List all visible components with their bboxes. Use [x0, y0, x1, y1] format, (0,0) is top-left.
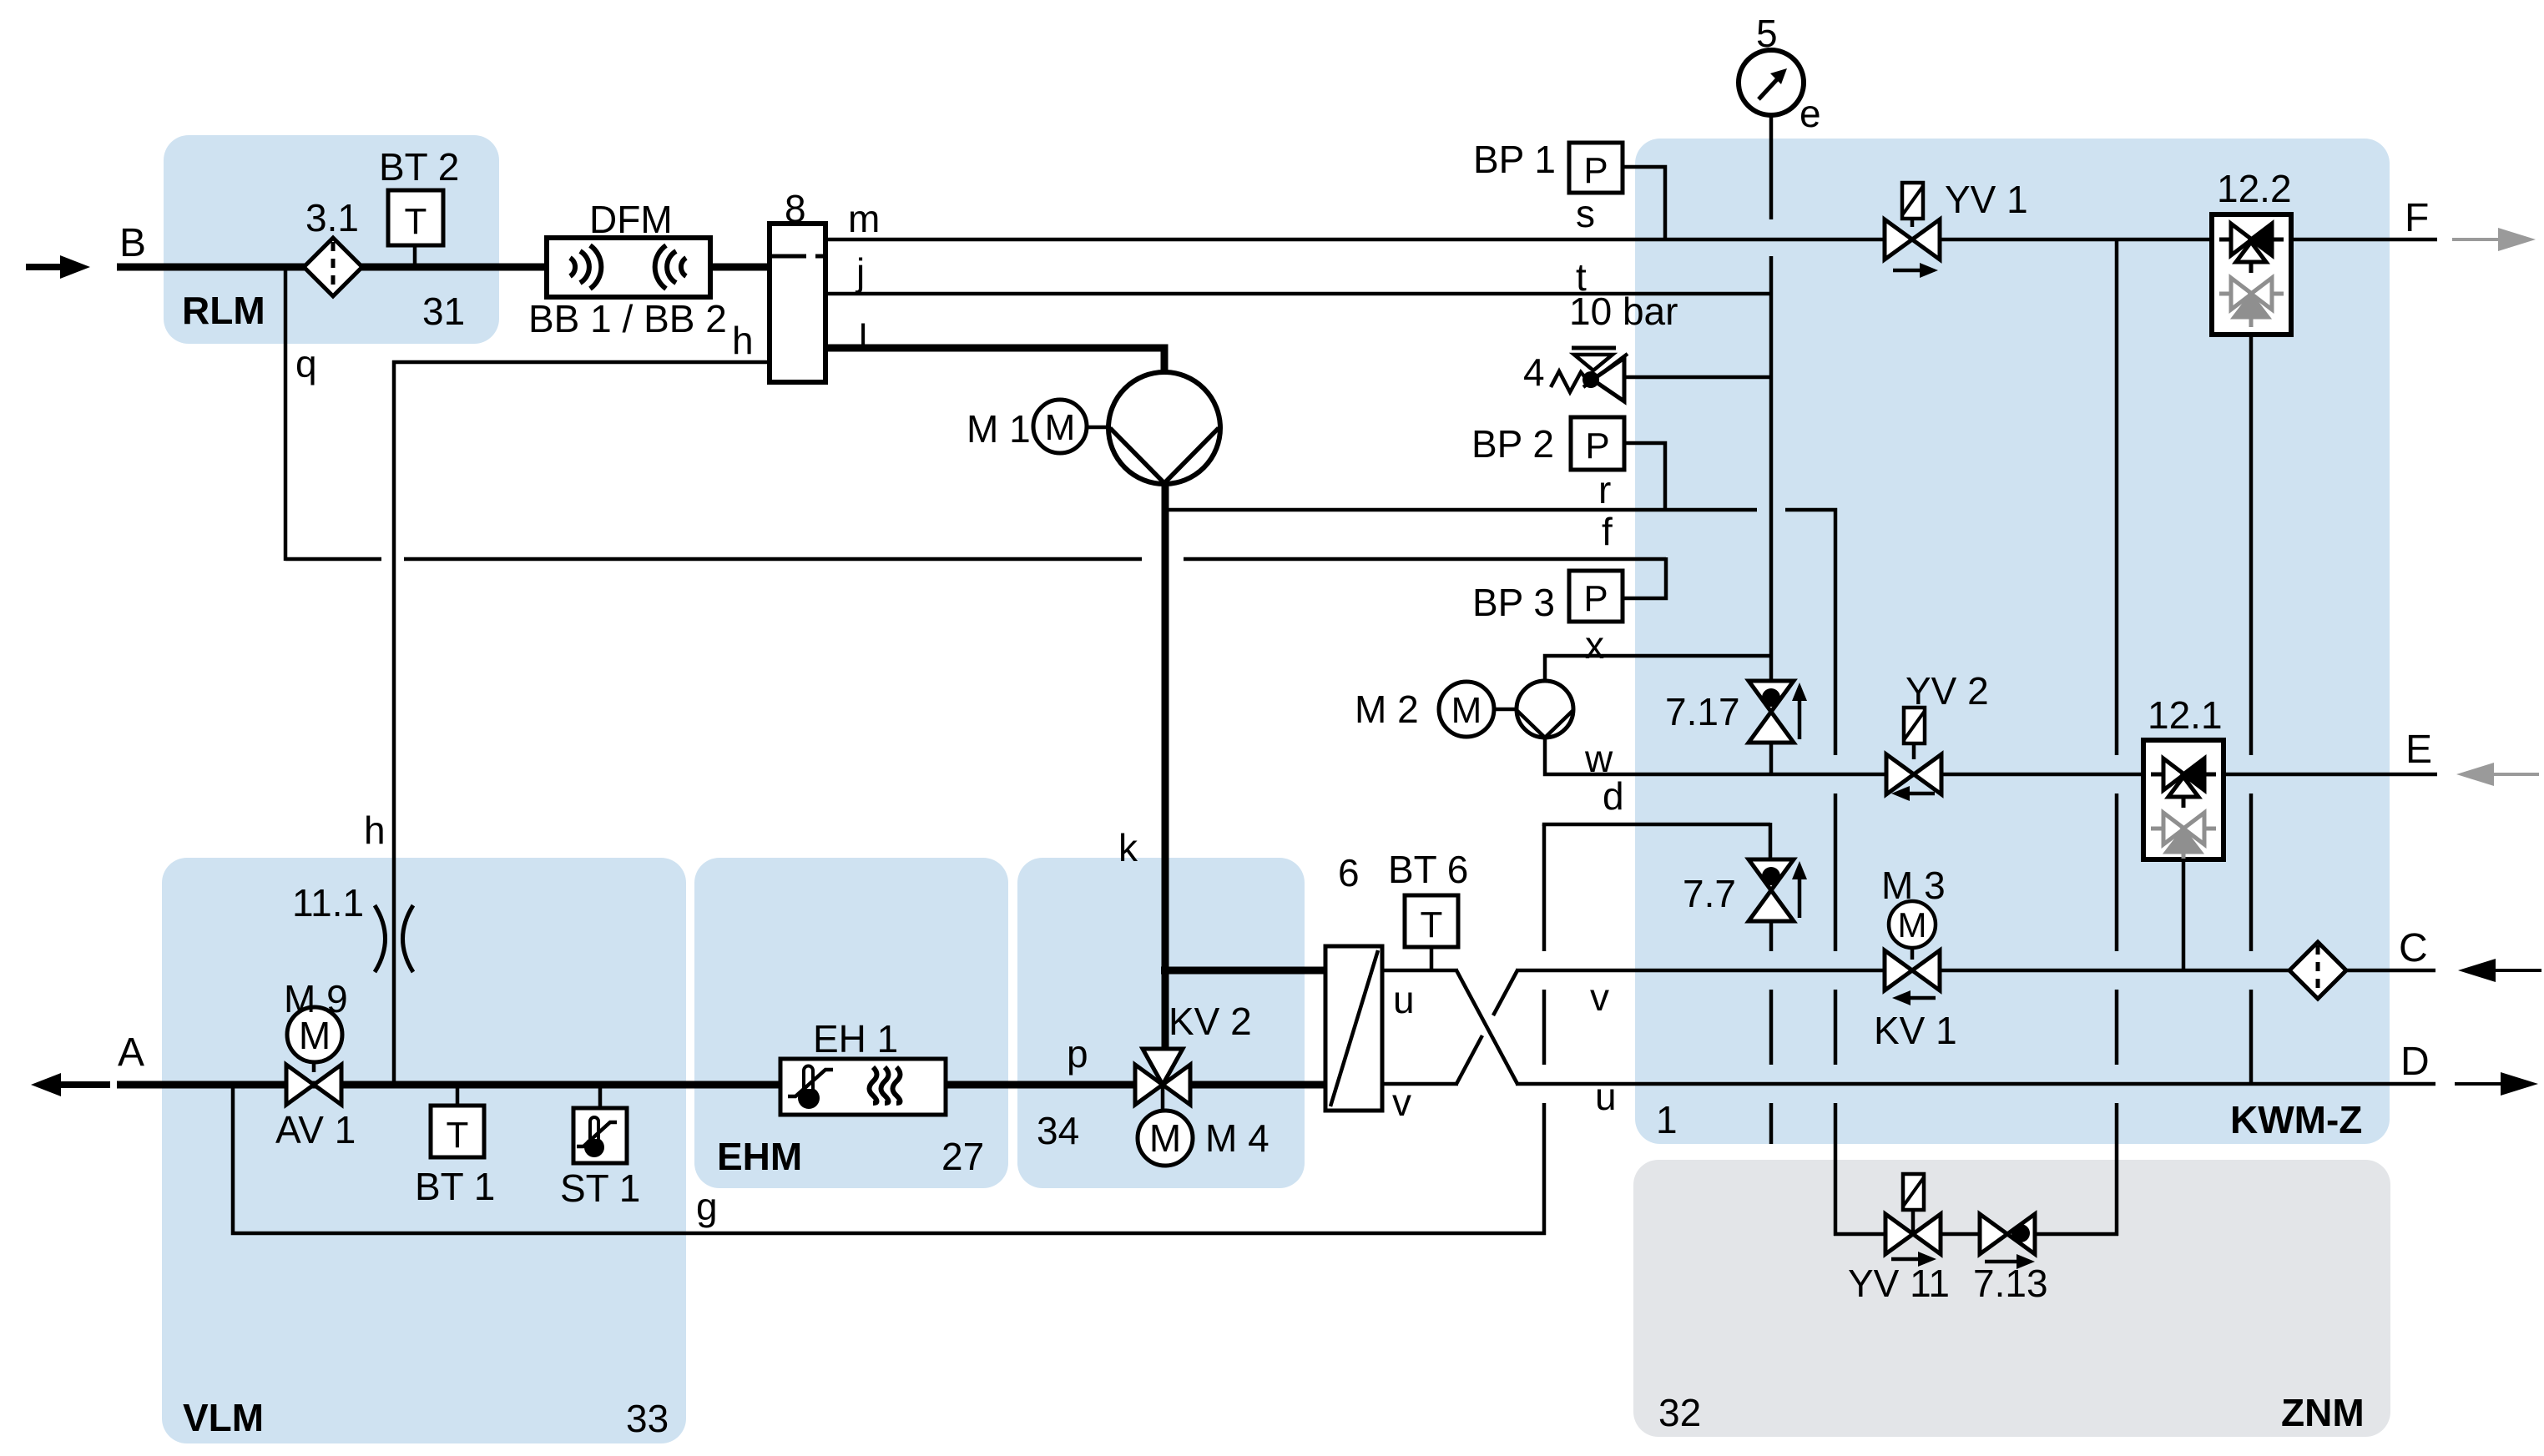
svg-text:VLM: VLM [183, 1396, 264, 1439]
manifold block 8 [770, 224, 825, 382]
svg-text:M: M [1451, 690, 1482, 731]
svg-text:h: h [732, 319, 754, 362]
svg-text:31: 31 [422, 290, 465, 333]
wire: x line from pump M2 to gauge riser [1545, 656, 1771, 683]
heat exchanger 6 [1325, 946, 1382, 1111]
module panel 34 background [1017, 858, 1305, 1188]
svg-text:u: u [1595, 1075, 1617, 1118]
svg-text:M 3: M 3 [1881, 864, 1946, 907]
overflow valve 7.17 [1749, 681, 1807, 743]
svg-text:M 4: M 4 [1205, 1116, 1269, 1160]
svg-text:EHM: EHM [717, 1135, 802, 1178]
backflow preventer 12.1 [2143, 740, 2223, 859]
svg-text:8: 8 [785, 187, 806, 230]
svg-text:ST 1: ST 1 [560, 1166, 640, 1210]
svg-text:C: C [2399, 926, 2428, 970]
svg-text:P: P [1585, 426, 1609, 466]
wire: V2 riser segments down into ZNM [1834, 793, 1838, 951]
three-way valve KV 2 with motor M 4 [1135, 1049, 1193, 1166]
wire: q vertical from pipe B down [284, 267, 288, 561]
svg-text:12.1: 12.1 [2148, 693, 2223, 737]
svg-text:M: M [1045, 407, 1076, 448]
port arrow D (outlet, black right) [2455, 1072, 2538, 1096]
temperature sensor BT 6 [1405, 895, 1458, 947]
wire: d riser segments down to g corner [1542, 824, 1547, 951]
svg-text:7.13: 7.13 [1973, 1262, 2048, 1305]
svg-text:BP 1: BP 1 [1473, 138, 1556, 181]
wire: crossover diagonal u up to v (with gap) [1456, 1035, 1482, 1084]
motor valve KV 1 with motor M 3 [1885, 901, 1940, 1005]
wire: k line (thick) pump M1 down to valve KV 2 [1162, 483, 1169, 1085]
overflow valve 7.7 [1749, 859, 1807, 921]
module panel VLM background [162, 858, 686, 1443]
svg-text:T: T [447, 1115, 469, 1156]
wire: gauge riser e / V1 from gauge to w line (gap at s) [1769, 113, 1774, 219]
svg-text:F: F [2405, 196, 2429, 240]
module panel EHM background [694, 858, 1008, 1188]
svg-text:KV 2: KV 2 [1169, 1000, 1252, 1043]
wire: u/D line to port D [1516, 1082, 2435, 1086]
pressure sensor BP 3 [1569, 571, 1623, 622]
module panel KWM-Z background [1635, 139, 2390, 1144]
svg-text:v: v [1392, 1081, 1411, 1124]
svg-text:j: j [855, 250, 865, 294]
pressure sensor BP 2 [1571, 417, 1624, 470]
port arrow C (inlet, black left) [2458, 959, 2541, 982]
svg-text:q: q [295, 342, 317, 385]
svg-text:7.7: 7.7 [1683, 872, 1736, 915]
wire: w/E line from pump M2 to port E [1545, 736, 2437, 774]
temperature sensor BT 2 [388, 190, 443, 245]
svg-text:KV 1: KV 1 [1874, 1009, 1957, 1052]
svg-text:34: 34 [1037, 1109, 1079, 1152]
svg-text:x: x [1585, 623, 1604, 667]
wire: pipe A (thick) from arrow through EH1 and KV2 to exchanger [117, 1081, 1325, 1089]
svg-text:32: 32 [1658, 1391, 1701, 1434]
pump M2 (circle with impeller) [1517, 681, 1573, 738]
filter 3 (diamond with dashed vertical) [2289, 942, 2346, 999]
svg-text:7.17: 7.17 [1665, 690, 1740, 733]
svg-text:KWM-Z: KWM-Z [2230, 1098, 2362, 1141]
svg-text:5: 5 [1756, 12, 1778, 55]
wire: pipe B (thick) from arrow to manifold 8 [117, 264, 770, 271]
svg-text:BP 3: BP 3 [1472, 581, 1555, 624]
solenoid valve YV 2 [1886, 708, 1941, 801]
wire: f line from q corner to BP3 elbow (gaps at h and k crossings) [285, 557, 381, 562]
svg-text:M: M [1898, 905, 1927, 945]
svg-text:M 1: M 1 [967, 407, 1031, 451]
wire: f elbow down to BP3 stub [1622, 557, 1666, 598]
port arrow F (outlet, gray right) [2452, 228, 2536, 251]
module panel RLM background [164, 135, 499, 344]
svg-text:27: 27 [941, 1135, 984, 1178]
compensator 11.1 [375, 905, 413, 972]
wire: BT2 stem [413, 244, 417, 267]
svg-text:BP 2: BP 2 [1471, 422, 1554, 466]
wire: h horizontal from corner to manifold 8 [392, 360, 771, 365]
electric heater EH 1 [780, 1059, 946, 1115]
svg-text:1: 1 [1656, 1098, 1678, 1141]
motor M of pump M1 [1033, 400, 1109, 453]
svg-text:v: v [1590, 975, 1609, 1019]
wire: r line from k line to V2 corner (gap at gauge riser) [1166, 508, 1757, 512]
wire: BP1 stub and elbow down to s line [1622, 167, 1665, 239]
svg-text:BB 1 / BB 2: BB 1 / BB 2 [528, 297, 727, 340]
svg-text:D: D [2400, 1040, 2430, 1084]
svg-text:BT 2: BT 2 [379, 145, 459, 189]
backflow preventer 12.2 [2212, 214, 2291, 335]
temperature sensor BT 1 [431, 1106, 484, 1157]
svg-text:11.1: 11.1 [292, 881, 364, 924]
wire: ST1 stem [598, 1085, 603, 1108]
svg-text:e: e [1799, 92, 1821, 135]
check valve 7.13 [1980, 1214, 2035, 1269]
wire: 12.1 stem down to C line [2182, 858, 2186, 970]
wire: j/t line from manifold 8 to gauge riser [825, 292, 1771, 296]
svg-text:EH 1: EH 1 [813, 1017, 898, 1061]
svg-text:RLM: RLM [182, 289, 265, 332]
wire: d line from drop riser to 7.7 valve corner [1544, 824, 1770, 826]
svg-text:M 2: M 2 [1355, 688, 1419, 731]
wire: BT6 stem [1430, 946, 1434, 970]
svg-text:m: m [848, 197, 880, 240]
wire: 7.7 drop line from d corner through valve to panel edge [1769, 823, 1773, 861]
svg-text:ZNM: ZNM [2281, 1391, 2365, 1434]
svg-text:YV 2: YV 2 [1905, 669, 1989, 713]
port arrow A (outlet, thick black left) [31, 1073, 110, 1096]
svg-text:u: u [1393, 978, 1415, 1021]
svg-text:M 9: M 9 [284, 977, 348, 1020]
svg-text:k: k [1118, 826, 1138, 869]
svg-text:T: T [1421, 904, 1443, 945]
svg-text:s: s [1576, 192, 1595, 235]
pressure gauge 5 [1739, 50, 1804, 115]
svg-text:T: T [405, 201, 427, 242]
svg-text:BT 6: BT 6 [1388, 848, 1468, 891]
wire: BT1 stem [456, 1085, 460, 1106]
pump M1 (circle with impeller) [1108, 372, 1220, 484]
svg-text:YV 1: YV 1 [1945, 178, 2028, 221]
motor valve AV 1 with actuator M 9 [286, 1007, 342, 1105]
flow meter DFM (ultrasonic) [547, 238, 710, 297]
safety thermostat ST 1 [573, 1108, 627, 1163]
svg-text:P: P [1583, 578, 1608, 619]
svg-text:4: 4 [1523, 350, 1545, 394]
pressure sensor BP 1 [1569, 143, 1623, 193]
wire: h vertical from h line down to pipe A [392, 360, 396, 1085]
wire: V4 riser from box 12.2 down to D line [2249, 333, 2254, 755]
wire: crossover diagonal v down to u (solid) [1456, 970, 1517, 1084]
port arrow E (inlet, gray left) [2456, 763, 2539, 786]
svg-text:f: f [1602, 510, 1613, 553]
wire: thick branch k to exchanger upper port [1161, 967, 1325, 975]
wire: g line from VLM drop to d riser [233, 1083, 1546, 1233]
solenoid valve YV 11 [1885, 1174, 1941, 1267]
svg-text:YV 11: YV 11 [1848, 1262, 1950, 1305]
svg-text:M: M [1149, 1116, 1181, 1160]
wire: exchanger lower right port u [1382, 1082, 1458, 1086]
svg-text:g: g [696, 1185, 718, 1228]
svg-text:h: h [364, 809, 386, 852]
wire: exchanger upper right port v with crossover [1382, 969, 1458, 973]
svg-text:p: p [1067, 1032, 1088, 1076]
svg-text:AV 1: AV 1 [275, 1108, 356, 1151]
svg-text:12.2: 12.2 [2217, 167, 2292, 210]
wire: V3 riser from s line down into ZNM bypass [2115, 239, 2119, 755]
wire: 4 relief line to gauge riser [1623, 375, 1771, 380]
filter 3.1 (diamond with dashed vertical) [304, 238, 362, 296]
wire: v/C line to port C [1516, 969, 2435, 973]
svg-text:d: d [1603, 774, 1624, 818]
svg-text:B: B [119, 221, 146, 265]
relief valve 4 (10 bar) [1551, 348, 1628, 401]
svg-text:DFM: DFM [589, 198, 673, 241]
svg-text:BT 1: BT 1 [415, 1165, 495, 1208]
svg-text:A: A [118, 1030, 144, 1075]
wire: m/s line from manifold 8 to port F [825, 238, 2437, 242]
svg-text:l: l [859, 316, 867, 360]
wire: ZNM bypass line YV11/7.13 [1834, 1232, 2118, 1237]
wire: l line (thick) from manifold 8 to pump M1 [825, 348, 1164, 376]
port arrow B (inlet, thick black right) [26, 255, 90, 279]
solenoid valve YV 1 [1885, 183, 1940, 278]
wire: BP2 stub and elbow down to r line [1623, 443, 1665, 510]
svg-text:E: E [2405, 728, 2432, 772]
svg-text:10 bar: 10 bar [1569, 290, 1678, 333]
svg-text:r: r [1598, 468, 1611, 511]
svg-text:3.1: 3.1 [305, 196, 359, 239]
svg-text:6: 6 [1338, 851, 1360, 894]
svg-text:P: P [1583, 150, 1608, 191]
motor M of pump M2 [1439, 682, 1517, 737]
module panel ZNM background [1633, 1160, 2390, 1437]
svg-text:33: 33 [626, 1397, 669, 1440]
